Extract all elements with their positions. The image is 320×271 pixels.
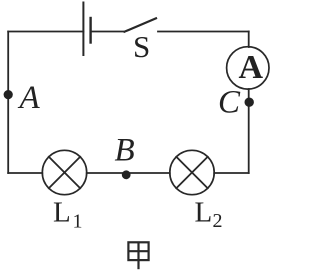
node A	[4, 90, 13, 99]
svg-text:B: B	[115, 133, 135, 169]
lamp L2	[170, 150, 214, 194]
svg-text:2: 2	[213, 210, 223, 232]
node B	[122, 170, 131, 179]
svg-text:L: L	[53, 197, 71, 229]
lamp L1	[42, 150, 86, 194]
svg-text:L: L	[195, 197, 213, 229]
battery B1	[83, 3, 90, 56]
wire: bottom-right horizontal to lamp L2	[214, 172, 249, 174]
ammeter U1	[227, 47, 269, 89]
node C	[245, 98, 254, 107]
wire: lamp L2 to lamp L1 through node B	[87, 172, 170, 174]
wire: switch right contact to top-right corner	[158, 31, 249, 33]
svg-text:1: 1	[73, 210, 83, 232]
wire: lamp L1 to bottom-left corner	[8, 172, 42, 174]
wire: right vertical down into ammeter	[248, 32, 250, 48]
wire: ammeter bottom to bottom-right corner	[248, 89, 250, 173]
switch S	[125, 18, 157, 31]
svg-text:A: A	[239, 49, 264, 86]
svg-text:S: S	[133, 29, 150, 64]
svg-text:A: A	[18, 80, 41, 116]
wire: top-left horizontal to battery long plate	[8, 31, 83, 33]
wire: battery to switch pivot	[91, 31, 125, 33]
caption 甲 (drawn with strokes)	[128, 242, 148, 269]
wire: left vertical from top-left corner down to bottom-left corner	[7, 32, 9, 174]
svg-text:C: C	[218, 85, 241, 121]
